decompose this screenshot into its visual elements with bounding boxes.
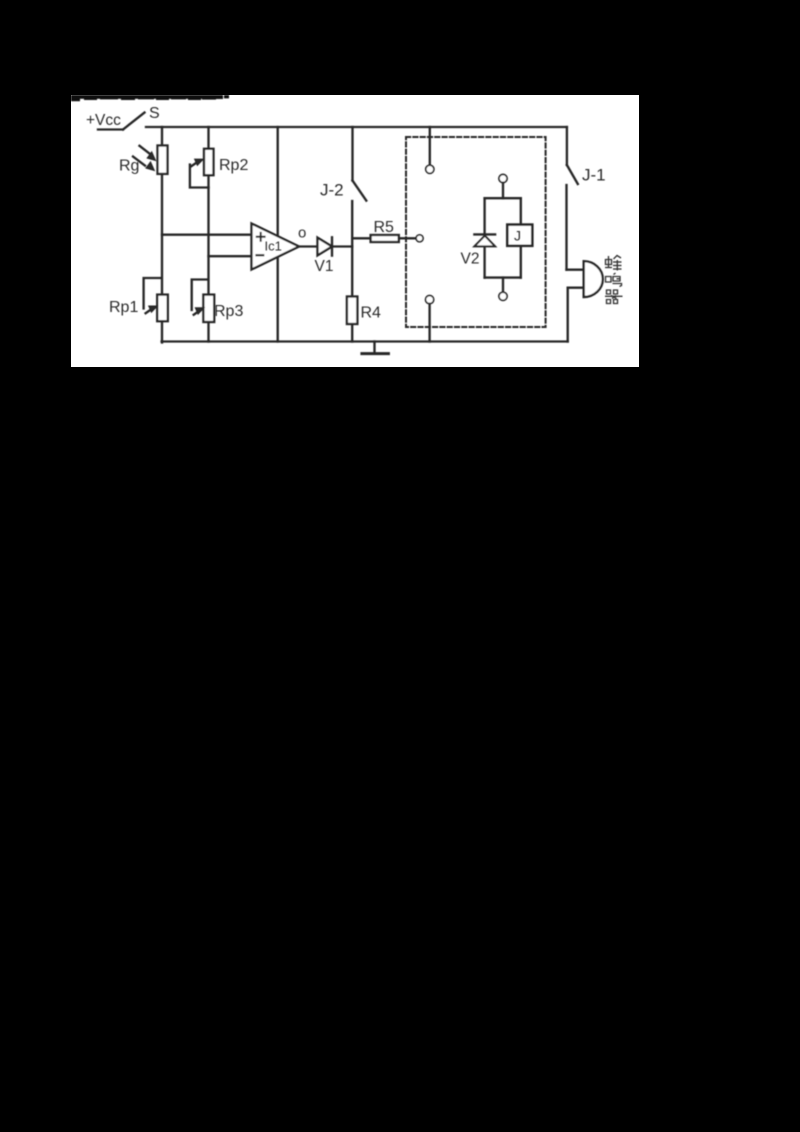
Rp2 wiper wire [190,165,209,188]
svg-text:Rp3: Rp3 [214,303,243,320]
relay coil J box [507,225,532,246]
svg-text:R5: R5 [374,219,395,236]
left column wire middle [161,174,163,295]
relay coil top stub [502,183,504,198]
op-amp - input wire [209,255,252,257]
potentiometer Rp1 body [157,295,168,322]
right bottom wire [567,288,569,342]
switch J-2 blade [353,181,367,201]
svg-text:+Vcc: +Vcc [86,112,121,129]
switch J-1 blade [567,165,578,184]
+Vcc lead wire [98,128,123,130]
Rp1 wiper wire [144,278,162,309]
right wire upper segment [566,127,568,165]
contact terminal circle top [426,165,434,173]
top rail wire [146,126,567,128]
svg-text:Rp2: Rp2 [219,157,248,174]
contact terminal circle bottom [426,296,434,304]
column2 wire middle [207,175,209,295]
relay loop right edge upper [520,198,522,224]
svg-text:J: J [514,228,521,244]
diode V1 triangle [318,238,333,256]
diode V2 cathode bar [474,233,495,235]
bottom rail wire [162,340,568,342]
cropped caption text remnant [71,95,229,101]
column2 wire top [207,127,209,148]
relay loop right edge lower [520,246,522,278]
resistor R5 lead left [352,237,370,239]
R5 terminal circle [416,235,423,242]
diode V2 triangle [474,236,495,247]
svg-text:Rp1: Rp1 [109,299,138,316]
ground stub [373,342,375,353]
op-amp + symbol [257,233,265,241]
J-2 column wire bottom [351,324,353,342]
left column wire top [161,127,163,146]
label 蜂鸣器 (buzzer), drawn strokes [605,256,623,304]
resistor R4 body [347,297,358,325]
buzzer bottom lead wire [568,287,584,289]
potentiometer Rp2 body [204,149,214,175]
contact branch wire top [429,127,431,165]
Rp2 wiper arrow [191,162,197,166]
svg-text:J-1: J-1 [582,166,606,185]
column2 wire bottom [207,322,209,342]
relay coil bottom stub [502,278,504,293]
buzzer body [584,261,603,297]
right wire lower segment [565,185,567,270]
svg-text:V2: V2 [461,251,480,268]
white schematic panel [71,95,639,367]
Rp3 wiper arrow [194,311,200,315]
Rg light arrow 2 [133,157,145,166]
op-amp + input wire [162,234,252,236]
switch S blade [123,113,145,130]
contact branch wire bottom [428,304,430,342]
Rg light arrow 1 [140,146,151,154]
svg-text:Rg: Rg [119,158,139,175]
photoresistor Rg body [158,146,168,174]
J-2 column wire middle [351,201,353,297]
ground bar [362,352,389,355]
op-amp supply column wire [277,127,279,342]
char 鸣 [606,273,622,287]
diode V1 cathode bar [331,237,333,255]
svg-text:o: o [298,225,306,242]
char 蜂 [605,256,622,271]
wire diode to J-2 column [332,245,352,247]
relay coil bottom circle [499,292,507,300]
op-amp - symbol [257,254,264,256]
resistor R5 body [371,235,399,242]
buzzer top lead wire [567,269,584,271]
text labels [86,105,606,322]
J-2 column wire top [351,127,353,181]
Rp3 wiper wire [192,280,208,311]
output wire [299,245,318,247]
relay loop left edge [483,198,485,277]
potentiometer Rp3 body [203,295,214,322]
op-amp U1 triangle [252,224,300,270]
svg-text:R4: R4 [361,305,382,322]
relay dashed enclosure [406,137,546,327]
relay loop bottom edge [485,276,521,278]
char 器 [605,290,623,304]
relay loop top edge [485,197,521,199]
relay coil top circle [499,174,507,182]
svg-text:V1: V1 [315,258,334,275]
svg-text:S: S [149,105,160,122]
resistor R5 lead right [399,237,416,239]
svg-text:J-2: J-2 [320,181,344,200]
svg-text:Ic1: Ic1 [265,239,282,254]
Rp1 wiper arrow [146,309,152,313]
left column wire bottom [161,321,163,343]
